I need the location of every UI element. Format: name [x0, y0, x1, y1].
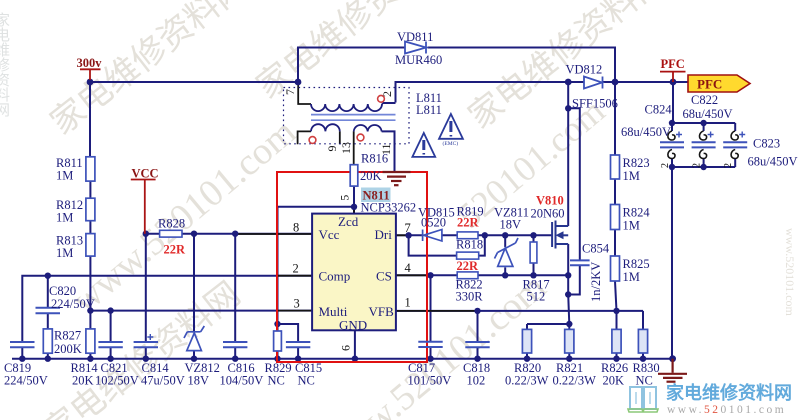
capacitor C854	[570, 260, 590, 265]
node VD811 cathode junction	[612, 79, 619, 86]
svg-text:C824: C824	[645, 103, 673, 117]
resistor R822	[457, 272, 478, 279]
svg-text:V810: V810	[536, 194, 564, 208]
svg-text:C854: C854	[582, 242, 610, 256]
wire pin7 stub	[396, 234, 408, 236]
wire R823 chain	[615, 82, 617, 311]
node pin8 row VZ812	[191, 231, 197, 237]
resistor R821	[565, 329, 574, 353]
svg-text:101/50V: 101/50V	[408, 374, 452, 388]
svg-text:68u/450V: 68u/450V	[683, 107, 733, 121]
capacitor C816	[223, 342, 247, 347]
wire VZ812 branch	[193, 234, 195, 359]
wire C816 branch	[234, 234, 236, 359]
resistor R816	[350, 165, 358, 186]
wire primary right lead	[382, 103, 383, 104]
wire C818 branch	[477, 311, 479, 359]
node VZ811 top	[502, 232, 508, 238]
ground (pin11, dark red)	[383, 172, 411, 185]
capacitor C819	[10, 342, 35, 347]
svg-text:104/50V: 104/50V	[220, 374, 264, 388]
svg-text:Comp: Comp	[319, 269, 351, 284]
resistor R823	[611, 155, 620, 179]
wire bottom resistor stubs	[527, 353, 643, 359]
svg-text:0.22/3W: 0.22/3W	[505, 374, 549, 388]
node cap bank top rail	[669, 120, 675, 126]
polarity dot pin9 winding	[309, 137, 316, 144]
transformer L811 secondary right	[354, 125, 382, 131]
svg-text:5: 5	[338, 195, 352, 201]
svg-text:1M: 1M	[56, 169, 73, 183]
N811 highlighted label	[361, 188, 391, 203]
svg-text:PFC: PFC	[661, 57, 685, 71]
svg-text:MUR460: MUR460	[395, 53, 442, 67]
wire pin3 stub	[278, 310, 312, 312]
wire pin4 stub	[396, 274, 428, 276]
wire xfmr pin2 lead	[383, 102, 396, 104]
svg-text:NC: NC	[298, 374, 315, 388]
svg-text:VD811: VD811	[397, 30, 433, 44]
WIRES (navy)	[12, 48, 735, 359]
wire PFC node down + cap bank rails	[672, 82, 735, 359]
warning triangle 1	[412, 133, 435, 157]
wire Multi row y310.6	[90, 310, 312, 312]
PFC arrow flag	[688, 75, 750, 92]
transformer L811 secondary left	[311, 124, 340, 131]
svg-text:1M: 1M	[623, 219, 640, 233]
node Dri pin7	[405, 232, 411, 238]
svg-text:22R: 22R	[457, 259, 480, 273]
resistor R811	[86, 157, 95, 181]
resistor R829	[274, 331, 282, 351]
svg-text:224/50V: 224/50V	[4, 374, 48, 388]
wire drain rail y82 from xfmr pin2 to PFC	[396, 82, 689, 103]
polarity dot pin13 winding	[357, 134, 364, 141]
capacitor C817	[418, 342, 442, 347]
svg-text:家电维修资料网: 家电维修资料网	[0, 12, 10, 118]
cap bank pin 2 labels	[660, 163, 734, 168]
wire pin6 stub	[354, 330, 356, 358]
svg-text:R818: R818	[456, 238, 483, 252]
cap bank lead hooks	[668, 131, 738, 159]
svg-text:1M: 1M	[56, 246, 73, 260]
svg-text:0.22/3W: 0.22/3W	[553, 374, 597, 388]
svg-text:C820: C820	[49, 284, 76, 298]
wire C821 branch	[110, 311, 112, 359]
svg-text:1M: 1M	[623, 270, 640, 284]
resistor R824	[611, 205, 620, 230]
node drain junction	[565, 79, 572, 86]
node 300v junction	[87, 79, 94, 86]
diode VD811	[405, 42, 426, 54]
wire C854 branch	[568, 108, 580, 294]
capacitor C821	[98, 342, 122, 347]
svg-text:3: 3	[294, 297, 300, 311]
node R819 right	[482, 232, 488, 238]
wire xfmr pin13 to R816	[353, 131, 355, 164]
IC N811 NCP33262 body	[312, 214, 396, 331]
svg-text:20K: 20K	[603, 374, 625, 388]
svg-text:C823: C823	[753, 137, 780, 151]
svg-text:C822: C822	[691, 93, 718, 107]
svg-text:Zcd: Zcd	[338, 214, 359, 229]
resistor R818	[457, 252, 479, 259]
wire CS row	[396, 274, 568, 276]
capacitor C814 electrolytic	[134, 334, 158, 347]
node PFC junction	[670, 79, 677, 86]
svg-text:7: 7	[405, 221, 411, 235]
svg-text:R827: R827	[54, 329, 81, 343]
svg-text:4: 4	[405, 261, 412, 275]
transformer L811 primary winding	[311, 103, 383, 111]
node CS source	[565, 272, 571, 278]
svg-text:R825: R825	[623, 257, 650, 271]
svg-text:www.520101.com: www.520101.com	[667, 404, 786, 416]
svg-text:330R: 330R	[456, 290, 484, 304]
svg-text:1: 1	[405, 296, 411, 310]
node CS VZ811 bottom	[502, 272, 508, 278]
svg-text:GND: GND	[339, 318, 367, 333]
svg-text:18V: 18V	[500, 218, 522, 232]
svg-text:0520: 0520	[421, 216, 446, 230]
wire xfmr pin7 stub	[298, 84, 311, 104]
ground (bottom right, dark red)	[658, 359, 687, 382]
transformer core	[311, 115, 396, 121]
zener VZ812	[184, 326, 204, 351]
svg-text:NCP33262: NCP33262	[361, 201, 417, 215]
svg-text:300v: 300v	[77, 56, 103, 70]
wire Dri row	[396, 234, 552, 236]
wire R817 stubs	[533, 235, 535, 275]
svg-text:VD812: VD812	[566, 63, 603, 77]
svg-text:512: 512	[527, 290, 546, 304]
capacitor C822 electrolytic	[692, 132, 716, 148]
svg-text:22R: 22R	[457, 216, 480, 230]
polarity dot pin2	[378, 95, 385, 102]
node VCC junction	[143, 231, 149, 237]
svg-text:1M: 1M	[56, 211, 73, 225]
capacitor C820	[36, 308, 61, 313]
node comp row C820	[45, 273, 51, 279]
wire pin2 stub	[278, 275, 312, 277]
svg-text:7: 7	[283, 89, 297, 95]
svg-text:22R: 22R	[164, 243, 187, 257]
node cap bank bottom rail	[669, 164, 675, 170]
svg-text:2: 2	[692, 163, 703, 168]
node CS R817 bottom	[530, 272, 536, 278]
svg-text:L811: L811	[416, 103, 442, 117]
svg-text:VFB: VFB	[369, 304, 395, 319]
svg-text:2: 2	[660, 163, 671, 168]
resistor R812	[86, 198, 95, 221]
svg-text:Vcc: Vcc	[319, 227, 340, 242]
wire Comp row y275.7	[22, 276, 312, 342]
wire drain vertical	[567, 82, 569, 226]
svg-text:20K: 20K	[360, 169, 382, 183]
svg-text:R816: R816	[361, 152, 388, 166]
wire Vcc pin8 row	[146, 233, 312, 235]
svg-text:6: 6	[339, 345, 353, 351]
wire pin1 stub	[396, 310, 476, 312]
svg-text:224/50V: 224/50V	[51, 297, 95, 311]
svg-text:2: 2	[293, 262, 299, 276]
wire cap bank stubs	[672, 123, 735, 167]
bottom-right watermark logo	[628, 382, 792, 416]
node pin8 row C816	[232, 231, 238, 237]
node multi row C821	[107, 307, 113, 313]
zener VZ811	[495, 238, 519, 266]
resistor R814	[86, 329, 95, 353]
svg-text:CS: CS	[376, 269, 392, 284]
resistor R828	[160, 230, 182, 237]
wire C817 branch	[430, 275, 432, 358]
svg-text:R824: R824	[623, 206, 651, 220]
diode VD815	[423, 230, 442, 242]
node C854 tap	[565, 105, 571, 111]
node source C854 return	[565, 291, 571, 297]
svg-text:NC: NC	[636, 374, 653, 388]
node CS C817	[427, 272, 433, 278]
wire xfmr pin9 leads	[298, 131, 340, 144]
resistor R820	[522, 329, 531, 353]
capacitor C815	[286, 342, 310, 347]
wire Zcd net	[278, 186, 355, 359]
svg-text:18V: 18V	[188, 374, 210, 388]
transformer L811 dotted box	[284, 88, 410, 144]
node R817 top	[530, 232, 536, 238]
svg-text:SFF1506: SFF1506	[572, 97, 618, 111]
svg-text:200K: 200K	[54, 342, 82, 356]
wire pin8 stub	[236, 233, 312, 235]
svg-text:VCC: VCC	[132, 167, 159, 181]
svg-text:13: 13	[339, 142, 353, 154]
svg-text:1M: 1M	[623, 169, 640, 183]
red highlight box	[277, 172, 427, 362]
svg-text:9: 9	[325, 146, 339, 152]
wire xfmr pin11 to ground	[382, 131, 395, 171]
svg-text:2: 2	[723, 163, 734, 168]
wire top rail via VD811	[298, 48, 615, 83]
node VFB C818	[474, 308, 480, 314]
capacitor C818	[465, 342, 489, 347]
svg-text:102/50V: 102/50V	[95, 374, 139, 388]
svg-text:NC: NC	[268, 374, 285, 388]
resistor R819	[457, 232, 478, 239]
svg-text:R823: R823	[623, 156, 650, 170]
resistor R817	[530, 242, 537, 263]
resistor R826	[612, 329, 621, 353]
mosfet V810	[552, 221, 568, 249]
wire R811-R814 chain	[89, 181, 91, 359]
svg-text:1n/2KV: 1n/2KV	[589, 262, 603, 302]
wire VCC down to C814	[145, 234, 147, 359]
resistor R830	[638, 329, 647, 353]
node VFB R826	[613, 308, 619, 314]
diode VD812 SFF1506	[584, 77, 603, 89]
node source R821	[566, 321, 572, 327]
svg-text:8: 8	[293, 221, 299, 235]
svg-text:102: 102	[467, 374, 486, 388]
svg-text:家电维修资料网: 家电维修资料网	[666, 382, 792, 403]
svg-text:20K: 20K	[72, 374, 94, 388]
node GND rail dots	[19, 356, 25, 362]
wire C820 branch	[47, 276, 49, 359]
wire source vertical	[568, 244, 569, 324]
resistor R827	[43, 329, 52, 353]
resistor R825	[611, 256, 620, 281]
svg-text:20N60: 20N60	[531, 207, 565, 221]
svg-text:www.520101.com: www.520101.com	[783, 228, 797, 317]
svg-text:Dri: Dri	[375, 227, 393, 242]
resistor R813	[86, 234, 95, 257]
node xfmr pin7 junction	[295, 79, 302, 86]
wire VZ811 stubs	[504, 235, 506, 275]
svg-text:2: 2	[380, 91, 394, 97]
black pin stubs	[236, 84, 476, 311]
bottom label row	[4, 361, 660, 388]
svg-text:PFC: PFC	[697, 77, 722, 92]
svg-text:R828: R828	[158, 217, 185, 231]
wire R818 loop	[409, 235, 485, 255]
svg-text:47u/50V: 47u/50V	[141, 374, 185, 388]
wire 300v down to R811	[89, 82, 91, 157]
capacitor C823 electrolytic	[723, 132, 747, 148]
wire GND rail	[12, 358, 673, 360]
node R829 C815 tap	[274, 321, 280, 327]
wire sense subrow	[527, 324, 569, 329]
capacitor C824 electrolytic	[660, 132, 684, 148]
node multi row R813	[87, 307, 93, 313]
warning triangle 2 (EMC)	[439, 114, 463, 139]
svg-text:68u/450V: 68u/450V	[621, 125, 671, 139]
wire 300v rail y82	[90, 81, 298, 83]
svg-text:68u/450V: 68u/450V	[748, 155, 798, 169]
node Zcd pin5	[351, 204, 357, 210]
svg-text:(EMC): (EMC)	[443, 140, 459, 147]
wire VFB row	[396, 311, 643, 330]
wire C819 bottom	[21, 347, 23, 359]
wire pin5 stub	[353, 207, 355, 214]
